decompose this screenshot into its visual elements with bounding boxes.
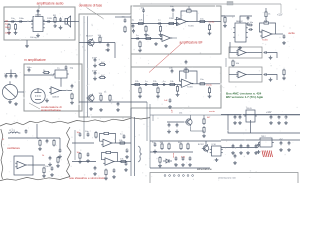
op-amp U4 (49, 87, 62, 94)
wire osc top (8, 137, 60, 139)
box amplificatore BF channel 2 (131, 67, 221, 108)
resistor R94 (159, 156, 161, 163)
resistor R31b (169, 83, 176, 85)
resistor R3 (54, 16, 56, 23)
ground C12 (93, 77, 97, 81)
wire bf2 pwr (185, 67, 187, 79)
ground U5 (238, 46, 242, 50)
resistor R15 (124, 26, 126, 33)
wire al q5 (205, 141, 207, 145)
capacitor C35 (171, 69, 174, 73)
capacitor C3 (37, 9, 40, 13)
IC U14 (210, 146, 223, 156)
svg-text:alimentazione: alimentazione (197, 168, 212, 171)
resistor R34 (208, 87, 210, 94)
ground U2b2 (164, 44, 168, 48)
resistor R32 (176, 85, 178, 92)
capacitor C99 (182, 156, 185, 160)
wire q4 coll (189, 115, 191, 118)
ground C98 (287, 148, 291, 152)
op-amp U7 (236, 49, 248, 56)
svg-text:8R: 8R (53, 15, 56, 17)
ground Cq1 (167, 130, 171, 134)
ground Cq2 (175, 130, 179, 134)
capacitor C97 (280, 141, 283, 145)
ground R3 (53, 24, 57, 28)
resistor R23 (185, 10, 192, 12)
ground C92b (188, 163, 192, 167)
wire bf1 out (187, 21, 222, 23)
wire vc1 right (18, 91, 24, 93)
resistor R35 (157, 87, 159, 94)
ground C97 (279, 148, 283, 152)
ground C13 (116, 108, 120, 112)
ground R86 (104, 176, 108, 180)
svg-text:BC107: BC107 (86, 36, 93, 38)
wire ant up (10, 70, 12, 75)
capacitor C80 (79, 132, 82, 136)
svg-text:uscita: uscita (209, 110, 215, 113)
svg-text:78L05: 78L05 (246, 108, 253, 110)
resistor R82 (119, 142, 126, 144)
capacitor C42 (65, 65, 68, 69)
wire dev vbus2 (87, 16, 89, 117)
svg-text:+12V: +12V (277, 14, 283, 16)
ground C55 (269, 56, 273, 60)
wire osc out (28, 164, 45, 166)
capacitor C24 (142, 8, 145, 12)
wire rs in (72, 142, 94, 144)
ground C95b (233, 161, 237, 165)
tube V1 (31, 88, 45, 103)
ground C10 (106, 48, 110, 52)
wire bus drop a (152, 115, 154, 121)
ground U14 (215, 158, 219, 162)
wire c25 up (172, 13, 174, 19)
resistor R25 (159, 25, 161, 32)
resistor R57 (283, 69, 285, 76)
capacitor C63 (278, 115, 281, 119)
box filter stage 2 (229, 67, 262, 82)
ground C52 (282, 41, 286, 45)
capacitor C33 (169, 98, 172, 102)
resistor R71 (53, 139, 55, 146)
transistor Q1 (87, 38, 95, 46)
op-amp U6 (260, 30, 274, 38)
capacitor C83 (94, 166, 97, 170)
ground C91 (174, 163, 178, 167)
box amplificatore audio (4, 7, 75, 40)
ground C92 (231, 151, 235, 155)
wire rx mid (60, 90, 72, 92)
svg-text:rete sfasatrice e sincronismi: rete sfasatrice e sincronismi (69, 176, 105, 180)
wire out bus (43, 21, 75, 23)
wire tr fb2 (270, 23, 276, 34)
ground C72 (48, 163, 52, 167)
wire dev bus (79, 42, 115, 44)
wire rx top (24, 74, 54, 76)
ground C93 (239, 151, 243, 155)
wire bf2 out (192, 83, 222, 85)
ground VC1 (8, 100, 12, 104)
ground U1 (36, 34, 40, 38)
wire rs fb2b (112, 153, 118, 162)
wire tr2 (240, 16, 252, 23)
wire q4 em (190, 126, 204, 131)
op-amp U11 (15, 161, 28, 168)
capacitor C90 (154, 142, 157, 146)
svg-text:BC337: BC337 (198, 144, 204, 146)
wire rail 2 (221, 147, 258, 149)
capacitor Cq1 (168, 123, 171, 127)
brace right (138, 146, 142, 162)
ground C94 (246, 151, 250, 155)
capacitor C4 (46, 20, 50, 23)
capacitor C19 (132, 24, 135, 28)
ground R85 (78, 160, 82, 164)
capacitor C71 (46, 139, 49, 143)
resistor R27 (145, 37, 152, 39)
resistor C22 (199, 20, 206, 22)
capacitor C94 (247, 144, 250, 148)
torn paper edge top (0, 118, 150, 126)
red hatch marks (262, 151, 273, 158)
capacitor C91 (175, 156, 178, 160)
resistor R81 (103, 132, 110, 134)
resistor R85 (79, 152, 81, 159)
capacitor C81 (87, 132, 90, 136)
ground R36 (138, 94, 142, 98)
capacitor C73 (59, 148, 62, 152)
resistor R24 (208, 24, 210, 31)
ground C90 (153, 150, 157, 154)
capacitor C20 (157, 22, 161, 25)
svg-text:zener: zener (172, 152, 175, 158)
diode D1 (163, 159, 172, 163)
wire st1 out (248, 52, 262, 54)
wire st2 out2 (268, 75, 277, 81)
capacitor C1 (10, 20, 14, 23)
wire al mid (150, 167, 210, 169)
capacitor C21 (175, 22, 179, 25)
resistor R70 (39, 139, 41, 146)
ground R57 (282, 76, 286, 80)
ground R94 (158, 164, 162, 168)
capacitor C50 (248, 24, 252, 27)
resistor R84 (120, 160, 127, 162)
op-amp U1 LM386 (31, 17, 45, 32)
resistor R56 (232, 60, 234, 67)
inductor L1 (8, 132, 20, 133)
capacitor C74 (51, 166, 54, 170)
resistor Rq2 (203, 126, 205, 133)
ground R32 (176, 93, 180, 97)
capacitor Cq2 (176, 123, 179, 127)
transistor Q4 (185, 118, 193, 126)
wire tr fb (260, 23, 263, 32)
wire rs in2 (72, 161, 96, 163)
capacitor C70 (25, 129, 28, 133)
resistor R86 (105, 169, 107, 176)
resistor R83 (105, 151, 112, 153)
wire rs vbus2 (134, 117, 136, 176)
wire +12 top rail (140, 3, 281, 5)
capacitor C55 (263, 51, 267, 54)
ground C74 (50, 173, 54, 177)
ground R41 (70, 101, 74, 105)
resistor R31 (152, 83, 159, 85)
resistor R51 (263, 22, 270, 24)
torn paper edge right (67, 127, 72, 177)
wire dev top right (115, 16, 131, 18)
svg-text:uscita: uscita (206, 83, 212, 86)
ground R28 (138, 48, 142, 52)
resistor R14 (109, 94, 111, 101)
wire q4 drop (203, 115, 205, 119)
svg-text:deviatore di fase: deviatore di fase (79, 4, 103, 8)
wire ant join (6, 73, 16, 75)
wire rs fb1b (110, 134, 116, 144)
regulator U10 78L05 (244, 110, 257, 122)
op-amp U13 (103, 158, 116, 165)
resistor R21 (168, 22, 175, 24)
ground C49 (246, 22, 250, 26)
ground C5 (59, 26, 63, 30)
svg-text:L1 C1: L1 C1 (9, 130, 16, 132)
capacitor C85 (123, 134, 126, 138)
wire tr out (274, 33, 283, 35)
ground C11 (93, 64, 97, 68)
ground C84 (125, 155, 129, 159)
capacitor C34 (185, 60, 188, 64)
terminal dots row (164, 175, 193, 177)
wire osc v2 (59, 138, 61, 150)
wire bf2 in (131, 84, 181, 86)
capacitor C26 (135, 37, 139, 40)
resistor R33 (183, 70, 190, 72)
pointer deviatore (87, 8, 105, 20)
ground C83 (93, 172, 97, 176)
wire tr pwr3 (265, 18, 267, 23)
capacitor C96 (257, 143, 260, 147)
resistor R30 (134, 83, 141, 85)
wire bf1 fb (177, 11, 186, 19)
speaker LS1 (65, 16, 71, 27)
resistor R90 (161, 143, 163, 150)
ground R70 (38, 147, 42, 151)
capacitor C12 (94, 71, 97, 75)
resistor R93 (187, 143, 189, 150)
wire pwr mid (250, 120, 252, 133)
wire hline mid right (150, 114, 300, 116)
ground U4 (45, 99, 49, 103)
op-amp U8 (236, 71, 248, 78)
resistor R40 (43, 71, 50, 73)
resistor Rq1 (203, 118, 205, 125)
ground R25 (159, 33, 163, 37)
ground R22 (144, 33, 148, 37)
resistor R92 (180, 143, 182, 150)
svg-text:100n: 100n (19, 18, 25, 20)
svg-text:oscillatore: oscillatore (7, 146, 20, 150)
capacitor C47 (15, 74, 18, 78)
ground R34 (208, 94, 212, 98)
svg-text:TL081: TL081 (188, 26, 195, 28)
resistor R41 (71, 93, 73, 100)
pointer condensatore (29, 103, 40, 109)
regulator U15 7812 (258, 138, 274, 147)
wire rail drop right (280, 4, 282, 13)
capacitor C10 (107, 43, 110, 47)
ground C96 (257, 150, 261, 154)
capacitor C92b (189, 156, 192, 160)
scan noise speckle (3, 2, 298, 180)
capacitor C52 (283, 34, 286, 38)
resistor R13 (100, 94, 102, 101)
connector J1 (227, 2, 233, 6)
capacitor C82 (87, 152, 90, 156)
svg-text:10k log: 10k log (30, 37, 36, 39)
resistor R80 (95, 131, 97, 138)
resistor R52 (265, 11, 267, 18)
wire B1 stub (26, 40, 28, 44)
op-amp U3 (180, 79, 194, 87)
resistor R11 (99, 63, 106, 65)
resistor R50 (224, 16, 226, 23)
capacitor C92 (232, 144, 235, 148)
box rx amplificatore (24, 64, 82, 111)
capacitor C45 (5, 74, 8, 78)
wire bf2 fb2 (190, 71, 197, 84)
capacitor C13 (117, 102, 120, 106)
wire rs fb2 (102, 153, 106, 160)
svg-text:15k: 15k (179, 113, 182, 115)
capacitor C61 (234, 115, 237, 119)
capacitor C2 (18, 20, 22, 23)
svg-text:alimentazione rete: alimentazione rete (218, 177, 237, 180)
capacitor C87 (113, 168, 116, 172)
box deviatore di fase (79, 14, 131, 117)
torn paper edge bottom (0, 177, 70, 181)
ground R73 (42, 174, 46, 178)
wire bf1 pwr (188, 6, 190, 9)
capacitor C98 (288, 141, 291, 145)
wire blob v75 (74, 130, 76, 160)
pointer audio (38, 5, 40, 9)
wire al bus2 (150, 151, 193, 153)
wire c24 up (143, 14, 145, 24)
oscillator box X1 (14, 156, 33, 175)
ground Q2 (89, 107, 93, 111)
wire rs fb1 (100, 134, 104, 142)
ground C64 (284, 121, 288, 125)
ground C99 (181, 163, 185, 167)
transistor Q5 (202, 144, 209, 152)
svg-text:CA3028: CA3028 (52, 96, 59, 99)
capacitor C64 (285, 115, 288, 119)
capacitor C49 (247, 16, 250, 20)
ground C60 (238, 121, 242, 125)
wire vline 150 (149, 104, 151, 168)
svg-text:uscita: uscita (288, 32, 295, 35)
svg-text:220u: 220u (47, 18, 53, 20)
ground R13 (99, 108, 103, 112)
ground Rq2 (202, 134, 206, 138)
wire B1 to B2 (75, 21, 79, 23)
wire bf1 in (131, 23, 177, 25)
capacitor C95 (255, 144, 258, 148)
svg-text:TL081: TL081 (262, 40, 269, 42)
ground C47 (14, 102, 18, 106)
wire rs vbus1 (130, 108, 132, 176)
wire rail top (221, 139, 300, 141)
wire U1 top (37, 10, 39, 17)
capacitor C5 (59, 17, 62, 21)
ground C73 (58, 155, 62, 159)
wire tr pwr2 (265, 8, 267, 12)
resistor R12 (99, 76, 106, 78)
wire bf1 fb2 (193, 11, 198, 22)
resistor R91 (168, 143, 170, 150)
wire st2 in (229, 74, 238, 76)
ground R2 (14, 31, 18, 35)
op-amp U12 (101, 139, 114, 146)
ground C61 (233, 121, 237, 125)
wire st2 out (248, 74, 262, 76)
svg-text:100n: 100n (27, 67, 33, 69)
capacitor C41 (28, 68, 31, 72)
resistor R2 (14, 23, 16, 30)
ground C62 (269, 121, 273, 125)
wire st1 in (229, 52, 238, 54)
svg-text:uscita: uscita (209, 20, 215, 23)
ground U2b (154, 42, 158, 46)
wire pwr left (228, 115, 300, 134)
resistor C32 (199, 83, 206, 85)
tuning gang VC1 (2, 81, 17, 99)
wire rs out2 (116, 161, 131, 163)
capacitor C40 (71, 84, 74, 88)
ground R72 (56, 164, 60, 168)
IF transformer T1 (53, 70, 69, 78)
ground R24 (208, 31, 212, 35)
ground C87 (112, 175, 116, 179)
pointer amplificatore BF (149, 43, 182, 73)
capacitor C56 (263, 73, 267, 76)
ground B1 stub (25, 44, 29, 48)
ground C95 (254, 151, 258, 155)
wire input bus (4, 21, 33, 23)
capacitor C86 (125, 161, 128, 165)
wire bf2 fb (180, 71, 183, 81)
capacitor C30 (144, 83, 148, 86)
svg-text:+12V: +12V (266, 112, 272, 114)
svg-text:LM386: LM386 (35, 14, 42, 16)
wire st1 out2 (268, 53, 277, 59)
svg-text:BM versione 1.7 (7/1) Agle: BM versione 1.7 (7/1) Agle (226, 95, 263, 99)
ground C33 (168, 105, 172, 109)
capacitor C11 (94, 58, 97, 62)
wire bf1b out (171, 37, 178, 39)
svg-text:220uF: 220uF (5, 32, 12, 34)
svg-text:sintonizzazione: sintonizzazione (41, 108, 61, 112)
capacitor C93 (240, 144, 243, 148)
capacitor C25 (172, 8, 175, 12)
svg-text:TL081: TL081 (187, 87, 194, 89)
ground C56 (269, 78, 273, 82)
wire bu drop (225, 58, 227, 67)
svg-text:amplificatore BF: amplificatore BF (179, 41, 202, 45)
